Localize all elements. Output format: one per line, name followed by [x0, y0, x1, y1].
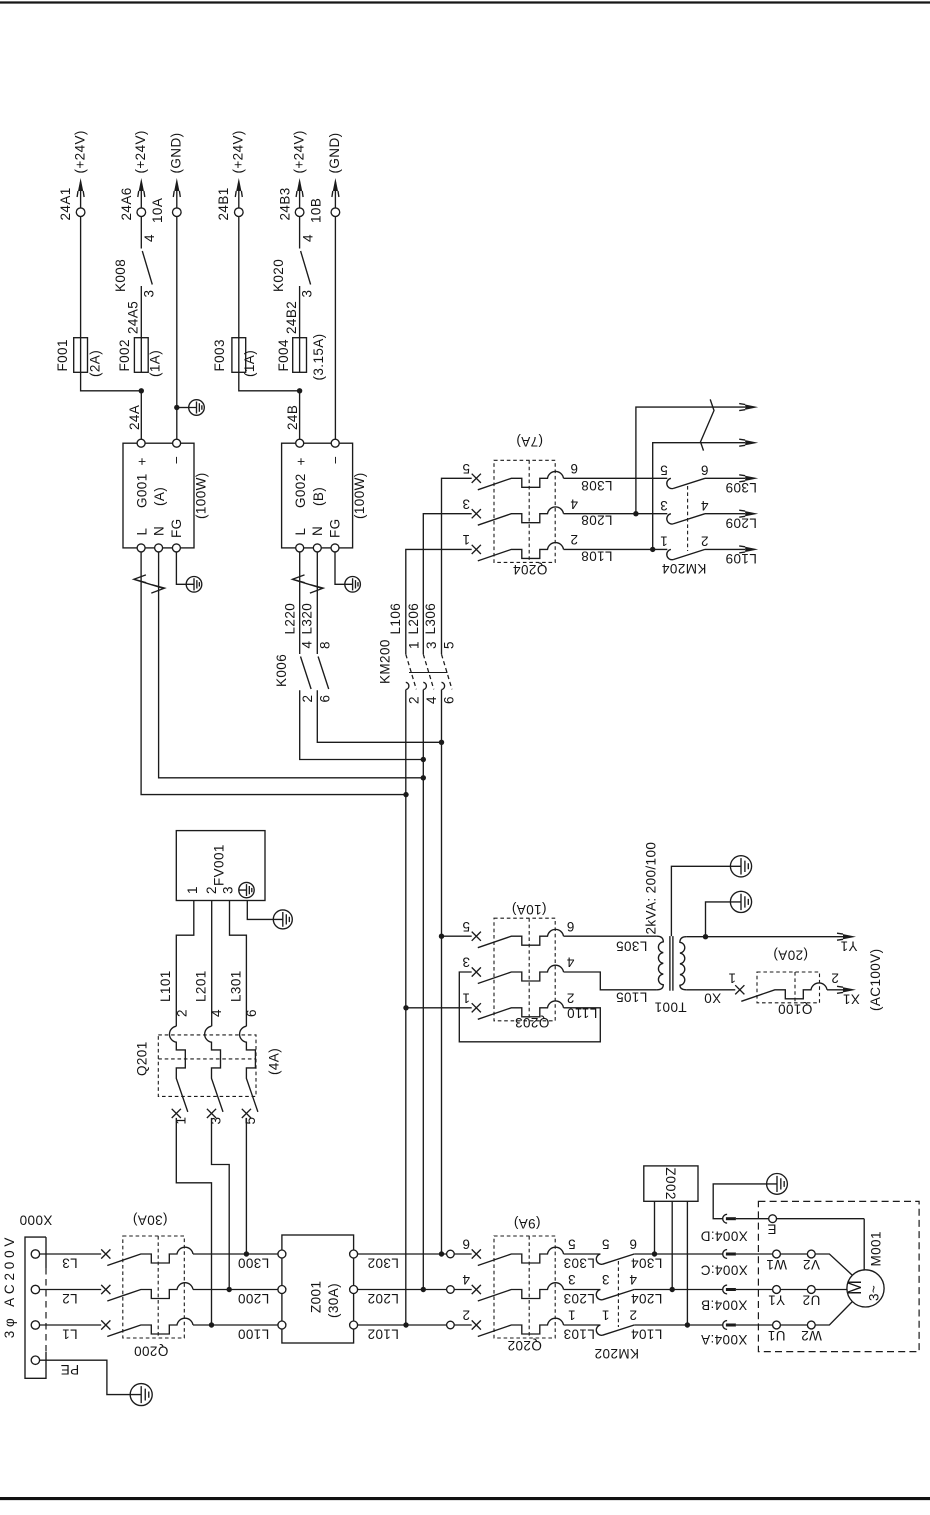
svg-text:24A5: 24A5 — [126, 301, 141, 334]
junction secondary earth tap — [703, 934, 708, 939]
svg-text:Q100: Q100 — [778, 1002, 813, 1017]
G002 N wire to K006 — [316, 552, 318, 654]
svg-text:L3: L3 — [62, 1256, 78, 1271]
svg-text:L: L — [134, 528, 149, 536]
svg-text:V2: V2 — [803, 1257, 820, 1272]
earth symbol motor frame — [767, 1174, 788, 1195]
G002 L wire to K006 — [299, 552, 301, 654]
wire PE to earth — [40, 1360, 131, 1394]
svg-text:L106: L106 — [388, 603, 403, 635]
wire L300 Q200 out to Z001 — [193, 1253, 278, 1255]
wire L309 output with arrow — [705, 477, 745, 479]
breaker Q204 pole 1-2 — [472, 545, 481, 554]
secondary X0 wire to Q100 — [686, 989, 735, 991]
svg-text:F004: F004 — [276, 339, 291, 371]
svg-text:8: 8 — [317, 641, 332, 649]
svg-text:L300: L300 — [238, 1256, 270, 1271]
svg-text:(GND): (GND) — [169, 133, 184, 174]
relay contact K008 pins 4-3 — [142, 251, 152, 285]
svg-text:3: 3 — [462, 496, 470, 511]
earth symbol near GND A — [189, 400, 205, 416]
svg-text:L301: L301 — [228, 970, 243, 1002]
wire L108 Q204-2 to KM204 — [564, 548, 668, 550]
Z002 tap wires — [654, 1201, 656, 1254]
G001 terminal N — [155, 544, 163, 552]
Q100 dashed enclosure — [757, 972, 820, 1003]
svg-text:4: 4 — [700, 498, 708, 513]
fuse F001 (2A) — [74, 338, 88, 373]
breaker Q200 pole L3 — [101, 1249, 110, 1258]
relay contact K006 pins 4-2 — [301, 657, 312, 690]
svg-text:FV001: FV001 — [212, 844, 227, 886]
motor terminal W2 — [807, 1321, 815, 1329]
earth tap on GND wire — [174, 405, 179, 410]
svg-text:N: N — [310, 526, 325, 536]
svg-text:4: 4 — [209, 1009, 224, 1017]
wire L304 to X004:C — [634, 1253, 723, 1255]
G002 terminal FG — [331, 544, 339, 552]
svg-text:Q204: Q204 — [513, 562, 548, 577]
G002 terminal N — [313, 544, 321, 552]
motor terminal Y1 — [773, 1286, 781, 1294]
svg-text:F001: F001 — [55, 339, 70, 371]
X000 terminal L2 — [31, 1285, 39, 1293]
contactor KM204 contact 1-2 — [667, 549, 673, 559]
svg-text:M001: M001 — [868, 1231, 883, 1266]
svg-text:(100W): (100W) — [352, 472, 367, 519]
contactor KM200 main contacts — [406, 654, 417, 689]
KM200 pin1 wire L106 up to Q204 — [406, 549, 472, 654]
wire 24A to G001 + — [140, 391, 142, 439]
svg-text:2: 2 — [566, 990, 574, 1005]
svg-text:(A): (A) — [152, 487, 167, 506]
breaker Q203 pole 3-4 — [472, 967, 481, 976]
svg-text:L104: L104 — [631, 1327, 663, 1342]
svg-text:Q203: Q203 — [515, 1015, 550, 1030]
FV001 earth pin wire — [247, 901, 273, 920]
earth symbol T001 core — [730, 856, 751, 877]
svg-text:3: 3 — [141, 290, 156, 298]
svg-text:3φ AC200V: 3φ AC200V — [2, 1234, 17, 1339]
wire L208 Q204-4 to KM204 — [564, 513, 668, 515]
secondary Y1 wire with arrow — [686, 936, 845, 938]
G001 terminal FG — [172, 544, 180, 552]
svg-text:X004:C: X004:C — [700, 1263, 747, 1278]
svg-text:(9A): (9A) — [513, 1216, 540, 1231]
svg-text:4: 4 — [462, 1272, 470, 1287]
relay contact K020 pins 4-3 — [301, 251, 311, 285]
PE earth symbol — [130, 1384, 152, 1406]
svg-text:1: 1 — [660, 534, 668, 549]
svg-text:L206: L206 — [406, 603, 421, 635]
Q201 pole2 wire to L200 row — [212, 1118, 230, 1290]
svg-text:L: L — [293, 528, 308, 536]
FV001 external earth — [273, 910, 292, 929]
Q204 dashed enclosure — [494, 460, 555, 562]
svg-text:N: N — [152, 526, 167, 536]
G002 FG earth wire — [335, 552, 345, 584]
wire L102 to Q202 — [358, 1324, 472, 1326]
breaker Q204 pole 3-4 — [472, 509, 481, 518]
svg-text:3: 3 — [221, 886, 236, 894]
svg-text:(3.15A): (3.15A) — [311, 333, 326, 380]
svg-text:1: 1 — [462, 532, 470, 547]
svg-text:L320: L320 — [300, 603, 315, 635]
wire L109 output with arrow — [705, 548, 745, 550]
riser B to off-page arrow — [653, 443, 745, 550]
svg-text:3: 3 — [602, 1272, 610, 1287]
svg-text:FG: FG — [328, 518, 343, 538]
motor terminal U1 — [773, 1321, 781, 1329]
breaker Q201 pole 6-5 — [242, 1109, 251, 1118]
svg-text:(+24V): (+24V) — [72, 130, 87, 173]
contactor KM204 contact 3-4 — [667, 514, 673, 524]
svg-text:L309: L309 — [725, 480, 757, 495]
page bottom rule — [0, 1497, 930, 1500]
breaker Q202 pole 2-1 — [472, 1320, 481, 1329]
wire L200 Q200 out to Z001 — [193, 1289, 278, 1291]
terminal circles before Q202 — [447, 1250, 455, 1258]
breaker Q202 pole 4-3 — [472, 1285, 481, 1294]
svg-text:2: 2 — [406, 696, 421, 704]
contactor KM202 contact 5-6 — [596, 1254, 602, 1264]
svg-text:24A1: 24A1 — [58, 187, 73, 220]
junction riser B on L108 — [650, 547, 655, 552]
wire 24B2 from K020 to F004 — [299, 286, 301, 338]
svg-text:L306: L306 — [423, 603, 438, 635]
svg-text:L303: L303 — [563, 1255, 595, 1270]
svg-text:3: 3 — [208, 1117, 223, 1125]
wire L305 Q203-6 to T001 — [564, 935, 657, 937]
svg-text:2: 2 — [570, 532, 578, 547]
connector X004:C — [723, 1250, 727, 1259]
bus wire KM200-4 down to L202 — [422, 690, 424, 1290]
svg-text:3: 3 — [300, 290, 315, 298]
svg-text:T001: T001 — [654, 999, 686, 1014]
svg-text:K006: K006 — [274, 654, 289, 687]
svg-text:L201: L201 — [193, 970, 208, 1002]
svg-text:24B3: 24B3 — [277, 187, 292, 220]
svg-text:KM200: KM200 — [378, 639, 393, 684]
breaker Q203 pole 5-6 — [472, 932, 481, 941]
wire L3 to Q200 — [40, 1253, 102, 1255]
svg-text:(+24V): (+24V) — [291, 130, 306, 173]
breaker Q203 pole 1-2 — [472, 1003, 481, 1012]
Z001 output terminals — [350, 1250, 358, 1258]
Q201 pole1 wire to L100 row — [176, 1118, 211, 1325]
X000 terminal L3 — [31, 1250, 39, 1258]
twist mark on G002 L/N wires — [293, 575, 324, 593]
svg-text:Q200: Q200 — [134, 1344, 169, 1359]
svg-text:L200: L200 — [238, 1291, 270, 1306]
svg-text:(GND): (GND) — [327, 133, 342, 174]
svg-text:X0: X0 — [704, 991, 721, 1006]
svg-text:3: 3 — [660, 498, 668, 513]
junction taps on Z001 input rows — [209, 1322, 214, 1327]
junction bus1 L102 — [403, 1322, 408, 1327]
svg-text:2: 2 — [462, 1308, 470, 1323]
Z002 junction dots — [652, 1251, 657, 1256]
breaker Q200 pole L2 — [101, 1285, 110, 1294]
breaker Q201 pole 4-3 — [207, 1109, 216, 1118]
transformer T001 secondary winding — [680, 937, 686, 990]
wire L1 to Q200 — [40, 1324, 102, 1326]
svg-text:U1: U1 — [767, 1328, 785, 1343]
wire L103 to KM202 — [564, 1324, 601, 1326]
svg-text:5: 5 — [660, 462, 668, 477]
wire X1 output with arrow — [827, 989, 845, 991]
G002 terminal + — [296, 439, 304, 447]
svg-text:1: 1 — [568, 1308, 576, 1323]
core earth wire — [671, 866, 730, 936]
svg-text:FG: FG — [169, 518, 184, 538]
junction G001-N to bus L2 — [421, 775, 426, 780]
G001 L wire down to bus — [141, 552, 406, 795]
junction G001-L to bus L1 — [403, 792, 408, 797]
earth tap wire — [706, 902, 731, 937]
svg-text:L208: L208 — [581, 513, 613, 528]
G002 terminal L — [296, 544, 304, 552]
wire L209 output with arrow — [705, 513, 745, 515]
svg-text:KM202: KM202 — [594, 1346, 639, 1361]
motor M001 3-phase — [847, 1270, 884, 1307]
svg-text:6: 6 — [244, 1009, 259, 1017]
svg-text:5: 5 — [441, 641, 456, 649]
svg-text:L105: L105 — [616, 990, 648, 1005]
wire 10A / GND with arrow — [176, 182, 178, 208]
svg-text:Y1: Y1 — [768, 1293, 785, 1308]
svg-text:10A: 10A — [150, 198, 165, 223]
wire L104 to X004:A — [634, 1324, 723, 1326]
svg-text:10B: 10B — [309, 198, 324, 223]
X000 terminal L1 — [31, 1321, 39, 1329]
node 24B junction — [297, 388, 302, 393]
fuse F003 (1A) — [232, 338, 246, 373]
svg-text:2: 2 — [831, 970, 839, 985]
wire L302 to Q202 — [358, 1253, 472, 1255]
wire X004:D earth row — [713, 1184, 766, 1219]
svg-text:L102: L102 — [367, 1326, 399, 1341]
svg-text:(1A): (1A) — [242, 350, 257, 377]
svg-text:(+24V): (+24V) — [133, 130, 148, 173]
wire L100 Q200 out to Z001 — [193, 1324, 278, 1326]
junction bus3 Q203 pin5 — [439, 934, 444, 939]
Q201 pole3 wire to L300 row — [245, 1118, 247, 1254]
svg-text:(20A): (20A) — [773, 948, 808, 963]
riser A to off-page arrow — [636, 407, 745, 514]
svg-text:6: 6 — [462, 1237, 470, 1252]
svg-text:PE: PE — [60, 1362, 79, 1377]
svg-text:(10A): (10A) — [511, 902, 546, 917]
svg-text:Q201: Q201 — [135, 1041, 150, 1076]
svg-text:X000: X000 — [19, 1213, 52, 1228]
contactor KM202 contact 1-2 — [596, 1325, 602, 1335]
svg-text:(2A): (2A) — [87, 350, 102, 377]
svg-text:X004:A: X004:A — [701, 1332, 748, 1347]
KM200 pin3 wire L206 up to Q204 — [423, 514, 471, 655]
wire bus1 to Q203 pin1 — [406, 1007, 472, 1009]
svg-text:(4A): (4A) — [267, 1048, 282, 1075]
svg-text:3: 3 — [462, 955, 470, 970]
Z001 input terminals — [278, 1250, 286, 1258]
svg-text:6: 6 — [629, 1237, 637, 1252]
svg-text:24B1: 24B1 — [216, 187, 231, 220]
wire 24B1 output with arrow to (+24V) — [238, 182, 240, 208]
motor dashed enclosure — [758, 1201, 919, 1351]
svg-text:L305: L305 — [616, 939, 648, 954]
svg-text:2: 2 — [629, 1308, 637, 1323]
KM202 linkage — [617, 1261, 619, 1327]
unit FV001 — [176, 831, 265, 901]
relay contact K006 pins 8-6 — [318, 657, 329, 690]
svg-text:K008: K008 — [113, 259, 128, 292]
breaker Q100 (20A) — [735, 985, 744, 994]
wire L308 Q204-6 to KM204 — [564, 477, 668, 479]
junction bus3 L302 — [439, 1251, 444, 1256]
node 24A junction — [139, 388, 144, 393]
svg-text:24B2: 24B2 — [284, 301, 299, 334]
svg-text:L100: L100 — [238, 1327, 270, 1342]
svg-text:24A6: 24A6 — [119, 187, 134, 220]
svg-text:L101: L101 — [158, 970, 173, 1002]
motor terminal V2 — [807, 1250, 815, 1258]
Q200 dashed enclosure — [123, 1236, 185, 1338]
svg-text:4: 4 — [300, 641, 315, 649]
svg-text:5: 5 — [462, 461, 470, 476]
svg-text:+: + — [293, 457, 308, 465]
wire L105 Q203-4 to T001 — [564, 972, 657, 990]
svg-text:−: − — [328, 456, 343, 464]
Q202 dashed enclosure — [494, 1236, 555, 1338]
svg-text:3: 3 — [568, 1272, 576, 1287]
svg-text:2: 2 — [701, 534, 709, 549]
G001 terminal L — [137, 544, 145, 552]
wire L303 to KM202 — [564, 1253, 601, 1255]
svg-text:F003: F003 — [212, 339, 227, 371]
breaker Q204 (7A) pole 5-6 — [472, 474, 481, 483]
G001 terminal + — [137, 439, 145, 447]
svg-text:+: + — [135, 457, 150, 465]
svg-text:X004:D: X004:D — [700, 1228, 747, 1243]
KM204 linkage — [687, 486, 689, 551]
G001 terminal - — [173, 439, 181, 447]
svg-text:L108: L108 — [581, 548, 613, 563]
svg-text:5: 5 — [568, 1237, 576, 1252]
svg-text:5: 5 — [243, 1117, 258, 1125]
junction K006-6 to bus L3 — [439, 740, 444, 745]
svg-text:1: 1 — [462, 990, 470, 1005]
svg-text:(1A): (1A) — [147, 350, 162, 377]
svg-text:L2: L2 — [62, 1291, 78, 1306]
motor terminal U2 — [807, 1286, 815, 1294]
Q201 dashed enclosure — [158, 1035, 256, 1097]
wire F001 out to node 24A — [81, 372, 142, 391]
connector X004:D — [723, 1214, 727, 1223]
svg-text:6: 6 — [570, 461, 578, 476]
G001 FG earth wire — [176, 552, 186, 584]
svg-text:5: 5 — [462, 919, 470, 934]
contactor KM204 contact 5-6 — [667, 478, 673, 488]
svg-text:KM204: KM204 — [662, 561, 707, 576]
wire W1-V2 row into motor — [736, 1253, 773, 1255]
svg-text:2: 2 — [300, 695, 315, 703]
svg-text:1: 1 — [406, 641, 421, 649]
wire U1-W2 row into motor — [736, 1324, 773, 1326]
wire Y1-U2 row into motor — [736, 1289, 773, 1291]
wire L110 wrap from Q203-2 to Q203-3 — [459, 972, 600, 1042]
svg-text:4: 4 — [629, 1272, 637, 1287]
svg-text:−: − — [169, 456, 184, 464]
wire F003 out to node 24B — [239, 372, 300, 391]
junction bus2 L202 — [421, 1287, 426, 1292]
Q203 dashed enclosure — [494, 918, 555, 1021]
svg-text:2kVA: 200/100: 2kVA: 200/100 — [644, 842, 659, 935]
svg-text:L110: L110 — [567, 1006, 598, 1021]
FV001 internal earth pin — [239, 882, 254, 897]
page top rule — [0, 1, 930, 3]
junction bus1 Q203 pin1 — [403, 1005, 408, 1010]
svg-text:G002: G002 — [293, 473, 308, 508]
FV001 pin3 wire to L301 — [230, 901, 247, 1027]
svg-text:2: 2 — [175, 1009, 190, 1017]
svg-text:4: 4 — [566, 955, 574, 970]
svg-text:W1: W1 — [766, 1257, 787, 1272]
svg-text:24B: 24B — [285, 405, 300, 430]
connector X000 — [25, 1237, 46, 1378]
power supply G001 (A) 100W — [123, 443, 194, 548]
wire E row to motor — [736, 1218, 769, 1220]
break mark across off-page arrows — [701, 399, 715, 450]
wire 24B to G002 + — [299, 391, 301, 439]
svg-text:1: 1 — [728, 970, 736, 985]
svg-text:(100W): (100W) — [194, 472, 209, 519]
svg-text:(+24V): (+24V) — [231, 130, 246, 173]
wire 24A5 from K008 to F002 — [140, 286, 142, 338]
wire L202 to Q202 — [358, 1289, 472, 1291]
svg-text:L204: L204 — [631, 1291, 663, 1306]
X000 terminal PE — [31, 1356, 39, 1364]
svg-text:(30A): (30A) — [132, 1213, 167, 1228]
svg-text:Z001: Z001 — [308, 1281, 323, 1313]
svg-text:4: 4 — [142, 234, 157, 242]
wire L203 to KM202 — [564, 1289, 601, 1291]
svg-text:Z002: Z002 — [663, 1167, 678, 1199]
connector X004:B — [723, 1285, 727, 1294]
junction K006-2 to bus L2 — [421, 757, 426, 762]
svg-text:K020: K020 — [271, 259, 286, 292]
svg-text:(AC100V): (AC100V) — [868, 949, 883, 1011]
svg-text:Y1: Y1 — [840, 939, 857, 954]
connector X004:A — [723, 1321, 727, 1330]
wire 24A1 output with arrow to (+24V) — [80, 182, 82, 208]
breaker Q200 pole L1 — [101, 1320, 110, 1329]
svg-text:6: 6 — [441, 696, 456, 704]
svg-text:W2: W2 — [801, 1328, 822, 1343]
wire 24B3 output with arrow to (+24V) — [299, 182, 301, 208]
svg-text:L103: L103 — [563, 1326, 595, 1341]
svg-text:U2: U2 — [802, 1293, 820, 1308]
svg-text:3: 3 — [424, 641, 439, 649]
svg-text:4: 4 — [300, 234, 315, 242]
svg-text:L209: L209 — [725, 515, 757, 530]
bus wire KM200-2 down to L102 — [405, 690, 407, 1325]
breaker Q201 pole 2-1 — [172, 1109, 181, 1118]
twist mark on G001 L/N wires — [134, 575, 165, 593]
svg-text:L109: L109 — [725, 551, 757, 566]
transformer T001 primary winding — [657, 936, 663, 990]
svg-text:4: 4 — [424, 696, 439, 704]
svg-text:3~: 3~ — [867, 1285, 882, 1301]
